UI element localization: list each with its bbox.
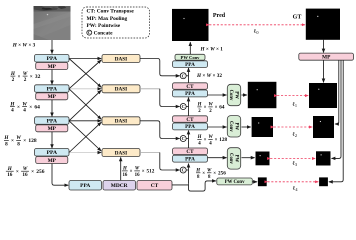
svg-text:16: 16 [135, 173, 140, 178]
wire DASI4 out [140, 152, 160, 154]
wire MP to GT1 [323, 60, 325, 82]
decoder CT B [173, 116, 208, 123]
svg-text:×: × [215, 106, 218, 111]
svg-text:ℓ1: ℓ1 [292, 102, 297, 108]
svg-text:ℓ3: ℓ3 [292, 161, 297, 167]
ground truth square GT0 [306, 9, 340, 40]
DASI2 [102, 85, 140, 93]
svg-text:C: C [182, 104, 185, 109]
svg-text:DASI: DASI [115, 119, 127, 125]
svg-text:Conv: Conv [228, 90, 233, 101]
wire PPA2 to DASI2 [69, 88, 101, 90]
wire PW Conv to Pred [189, 42, 191, 54]
wire PPA1 to DASI2 [69, 59, 101, 88]
svg-text:16: 16 [7, 172, 13, 178]
DASI1 [102, 55, 140, 63]
svg-text:CT: CT [186, 117, 194, 123]
wire GT0 to MP [323, 40, 325, 53]
svg-text:PW: PW [233, 91, 238, 99]
svg-text:PW: PW [233, 123, 238, 131]
wire image to PPA1 [51, 40, 53, 54]
prediction square Pred0 [172, 9, 209, 41]
svg-text:Conv: Conv [228, 121, 233, 132]
wire loss l4 dashes [268, 181, 319, 183]
svg-text:PPA: PPA [47, 56, 57, 62]
svg-text:H × W × 3: H × W × 3 [12, 42, 36, 48]
svg-text:8: 8 [17, 141, 20, 147]
svg-text:MP: Max Pooling: MP: Max Pooling [87, 16, 128, 22]
svg-text:128: 128 [219, 137, 227, 143]
bottleneck PPA [69, 181, 102, 191]
wire MP to GT4 [329, 60, 343, 182]
svg-text:512: 512 [147, 169, 155, 175]
wire C3 to chain [186, 138, 188, 140]
concat C4 [180, 167, 186, 173]
svg-text:CT: CT [151, 183, 159, 189]
GT MP box [299, 53, 354, 60]
concat C3 [180, 136, 186, 142]
DASI3 [102, 117, 140, 125]
svg-text:C: C [182, 136, 185, 141]
wire PW3 to Pred3 [242, 157, 255, 159]
svg-text:GT: GT [293, 14, 302, 20]
wire DASI4 to concat C4 [160, 153, 180, 171]
decoder PW Conv top [175, 54, 205, 60]
svg-text:PPA: PPA [185, 62, 195, 68]
encoder PPA1 [35, 55, 70, 63]
wire PPA to side PW Conv 2 [208, 126, 227, 128]
svg-text:32: 32 [35, 74, 41, 80]
svg-text:PPA: PPA [185, 124, 195, 130]
wire PPA3 to DASI3 [69, 120, 101, 122]
svg-text:256: 256 [218, 171, 226, 177]
svg-text:PPA: PPA [185, 156, 195, 162]
bottleneck MDCR [103, 181, 136, 191]
wire DASI2 to concat C2 [160, 89, 180, 107]
svg-text:16: 16 [22, 172, 28, 178]
svg-text:×: × [215, 138, 218, 143]
wire loss l2 dashes [274, 126, 312, 128]
svg-text:C: C [88, 30, 91, 35]
wire PW1 to Pred1 [242, 94, 247, 96]
label H/16 W/16 256 [6, 166, 45, 178]
svg-text:ℓ2: ℓ2 [292, 132, 297, 138]
svg-text:×: × [30, 74, 33, 80]
svg-text:Pred: Pred [213, 13, 226, 19]
svg-text:×: × [23, 138, 26, 144]
wire up into PPA level 1 [188, 98, 190, 116]
svg-text:CT: Conv Transpose: CT: Conv Transpose [87, 9, 135, 15]
legend box [82, 7, 150, 38]
svg-text:PPA: PPA [47, 87, 57, 93]
label H/4 W/4 128 [197, 135, 228, 146]
svg-text:8: 8 [5, 141, 8, 147]
wire MDCR to DASI4 [120, 157, 122, 180]
decoder CT A [173, 83, 208, 90]
label H/16 W/16 512 [122, 167, 155, 178]
prediction square Pred3 [256, 152, 270, 166]
label H/8 W/8 256 [195, 169, 226, 180]
wire PPA4 to DASI3 [69, 122, 101, 152]
ground truth square GT3 [316, 151, 331, 165]
label H/2 W/2 64 [197, 103, 225, 114]
wire MP to GT3 [332, 60, 342, 158]
svg-text:×: × [204, 138, 207, 143]
wire PPA2 to DASI1 [69, 60, 101, 89]
input image thumbnail [34, 6, 71, 40]
prediction square Pred4 [258, 177, 267, 186]
svg-text:DASI: DASI [115, 150, 127, 156]
svg-text:Conv: Conv [228, 153, 233, 164]
svg-text:PW Conv: PW Conv [181, 55, 201, 60]
encoder MP2 [36, 93, 68, 100]
svg-text:256: 256 [36, 169, 45, 175]
label H/2 W/2 32 [10, 71, 41, 83]
svg-text:×: × [204, 106, 207, 111]
wire MP1 to PPA2 [51, 70, 53, 85]
wire MP4 to bottleneck PPA [52, 164, 68, 186]
bottleneck CT [137, 181, 172, 191]
svg-text:MP: MP [48, 64, 57, 70]
encoder MP3 [36, 125, 68, 132]
svg-text:CT: CT [186, 149, 194, 155]
svg-text:MP: MP [322, 55, 331, 61]
wire PPA3 to DASI2 [69, 90, 101, 121]
side PW Conv 2 [227, 116, 240, 137]
decoder CT C [173, 148, 208, 155]
wire CT out to PW Conv 4 [189, 181, 216, 191]
wire loss l1 dashes [277, 95, 308, 97]
svg-text:×: × [142, 170, 145, 175]
wire C4 to chain [186, 169, 188, 171]
svg-text:PW Conv: PW Conv [225, 180, 245, 185]
encoder MP4 [36, 157, 68, 164]
svg-text:MP: MP [48, 94, 57, 100]
svg-text:H × W × 32: H × W × 32 [196, 73, 222, 79]
svg-text:2: 2 [12, 77, 15, 83]
svg-text:PW: PW [233, 155, 238, 163]
svg-text:×: × [18, 74, 21, 80]
svg-text:PPA: PPA [47, 150, 57, 156]
svg-text:×: × [31, 169, 34, 175]
svg-text:128: 128 [28, 138, 37, 144]
svg-text:CT: CT [186, 84, 194, 90]
wire loss l3 dashes [270, 158, 315, 160]
svg-text:×: × [17, 104, 20, 110]
svg-text:MP: MP [48, 158, 57, 164]
wire PPA1 to DASI1 [69, 58, 101, 60]
concat C1 [180, 73, 186, 79]
svg-text:×: × [16, 169, 19, 175]
wire DASI3 to concat C3 [140, 121, 180, 139]
encoder PPA3 [35, 117, 70, 125]
wire up into PPA level 3 [188, 164, 190, 184]
wire PPA3 to DASI4 [69, 121, 101, 151]
DASI4 [102, 149, 140, 157]
wire up into PPA level 2 [188, 131, 190, 149]
wire up into PPA level 0 [188, 68, 190, 83]
wire MP to GT2 [335, 60, 339, 124]
encoder PPA2 [35, 85, 70, 93]
svg-text:DASI: DASI [115, 87, 127, 93]
side PW Conv 3 [227, 148, 240, 169]
concat C2 [180, 104, 186, 110]
prediction square Pred2 [252, 117, 273, 137]
encoder PPA4 [35, 149, 70, 157]
svg-text:ℓ0: ℓ0 [254, 29, 259, 35]
prediction square Pred1 [248, 82, 277, 108]
wire MP3 to PPA4 [51, 132, 53, 148]
svg-text:MDCR: MDCR [111, 183, 128, 189]
wire PPA2 to DASI3 [69, 89, 101, 120]
wire loss l0 dashes [209, 24, 305, 26]
ground truth square GT4 [319, 177, 328, 186]
wire C2 to chain [186, 106, 188, 108]
side PW Conv 4 [217, 178, 253, 185]
svg-text:×: × [213, 172, 216, 177]
decoder PPA A [173, 90, 208, 97]
svg-text:4: 4 [11, 108, 14, 114]
svg-text:×: × [29, 104, 32, 110]
svg-text:DASI: DASI [115, 56, 127, 62]
wire MP2 to PPA3 [51, 100, 53, 117]
ground truth square GT1 [309, 83, 337, 108]
label H/8 W/8 128 [3, 135, 37, 147]
wire DASI1 to concat C1 [140, 59, 180, 76]
svg-text:PPA: PPA [80, 183, 90, 189]
wire PPA4 to DASI4 [69, 152, 101, 154]
svg-text:64: 64 [34, 104, 40, 110]
svg-text:PPA: PPA [185, 91, 195, 97]
svg-text:PPA: PPA [47, 119, 57, 125]
encoder MP1 [36, 63, 68, 70]
svg-text:×: × [130, 170, 133, 175]
svg-text:×: × [11, 138, 14, 144]
wire PPA to side PW Conv 1 [208, 94, 227, 96]
decoder PPA B [173, 123, 208, 130]
svg-text:64: 64 [219, 105, 225, 111]
wire CT out to chain [172, 184, 189, 185]
svg-text:2: 2 [24, 77, 27, 83]
side PW Conv 1 [227, 84, 240, 105]
svg-text:MP: MP [48, 126, 57, 132]
ground truth square GT2 [313, 116, 334, 138]
svg-text:16: 16 [122, 173, 127, 178]
svg-text:C: C [182, 168, 185, 173]
wire DASI2 out [140, 88, 160, 90]
svg-text:C: C [182, 73, 185, 78]
wire PPA to side PW Conv 3 [208, 157, 227, 159]
wire PW2 to Pred2 [242, 126, 251, 128]
svg-text:Concate: Concate [94, 31, 113, 37]
label H/4 W/4 64 [9, 101, 40, 113]
svg-text:H × W × 1: H × W × 1 [200, 47, 224, 53]
svg-text:4: 4 [23, 108, 26, 114]
svg-text:×: × [202, 172, 205, 177]
wire C1 to chain [186, 75, 188, 77]
decoder PPA C [173, 155, 208, 162]
decoder PPA top [173, 61, 208, 68]
svg-text:PW: Pointwise: PW: Pointwise [87, 23, 121, 29]
svg-text:ℓ4: ℓ4 [293, 186, 299, 192]
wire PW4 to Pred4 [252, 181, 257, 183]
